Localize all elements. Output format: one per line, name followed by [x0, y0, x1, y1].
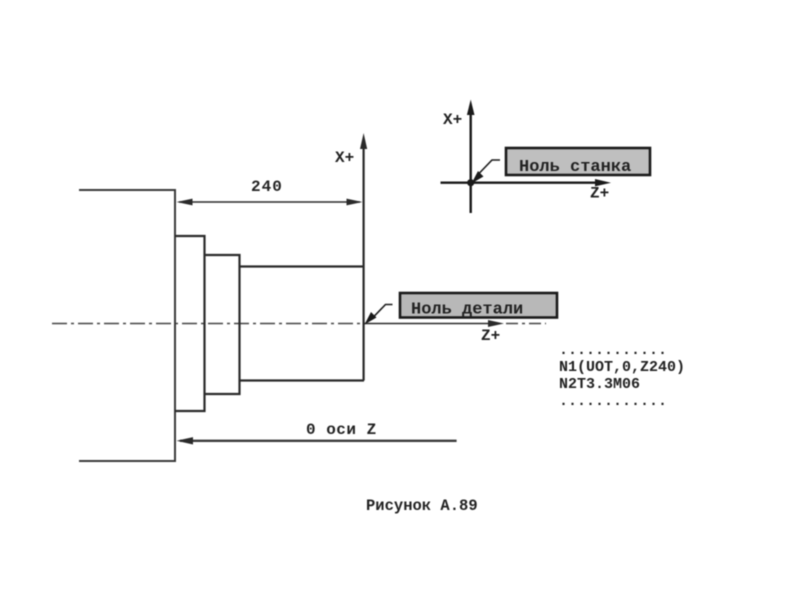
callout box: Ноль станка [506, 148, 650, 175]
svg-text:Ноль детали: Ноль детали [411, 301, 523, 320]
workpiece shaft top [240, 265, 365, 267]
Z axis of part (horizontal) [364, 323, 496, 325]
flange step 2 [205, 255, 240, 394]
flange step 1 [175, 236, 205, 411]
centerline (part axis, dash-dot) [52, 323, 363, 325]
svg-text:0 оси Z: 0 оси Z [306, 421, 377, 439]
dimension 240 line [179, 201, 360, 203]
leader arrow to part zero [373, 305, 393, 319]
machine Z axis (horizontal) [441, 181, 604, 183]
svg-text:N2T3.3M06: N2T3.3M06 [559, 376, 640, 393]
svg-text:240: 240 [251, 178, 283, 196]
svg-text:Z+: Z+ [590, 185, 609, 203]
svg-text:X+: X+ [335, 149, 354, 167]
svg-text:X+: X+ [443, 111, 462, 129]
svg-text:Ноль станка: Ноль станка [519, 158, 631, 177]
chuck body [79, 190, 175, 461]
svg-text:Рисунок А.89: Рисунок А.89 [366, 497, 478, 515]
machine X axis (vertical) [470, 105, 472, 213]
svg-text:............: ............ [559, 342, 667, 359]
machine origin dot [467, 179, 474, 186]
dimension line 0 оси Z [180, 440, 457, 442]
workpiece shaft bottom [240, 379, 365, 381]
leader arrow to machine zero [479, 160, 500, 174]
X axis of part (vertical, also shaft right edge) [363, 139, 365, 381]
svg-text:Z+: Z+ [481, 327, 500, 345]
callout box: Ноль детали [400, 293, 557, 318]
centerline continuation right of Z+ arrow [506, 323, 546, 325]
svg-text:N1(UOT,0,Z240): N1(UOT,0,Z240) [559, 359, 685, 376]
svg-text:............: ............ [559, 393, 667, 410]
